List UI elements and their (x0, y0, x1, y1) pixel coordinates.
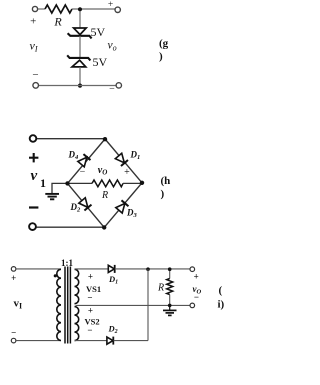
svg-text:−: − (109, 84, 115, 95)
terminal circle bottom-left (h) (29, 223, 36, 230)
primary winding (i) (57, 269, 61, 340)
svg-text:−: − (194, 292, 199, 302)
wire D2 riser vertical (i) (147, 269, 149, 340)
wire D1 to output node (i) (115, 268, 190, 270)
wire D2 to riser (i) (114, 340, 148, 342)
resistor R (g) (45, 5, 72, 13)
wire zener branch lower (g) (79, 67, 81, 86)
ground symbol (i) (163, 305, 177, 315)
node dot D2-return top (i) (146, 267, 150, 271)
svg-text:5V: 5V (91, 25, 106, 39)
svg-text:R: R (53, 15, 62, 29)
terminal circle output bottom (i) (190, 303, 195, 308)
wire secondary bottom lead (i) (75, 340, 107, 342)
svg-text:vO: vO (98, 165, 108, 177)
node dot bottom (g) (78, 84, 82, 88)
diode D3 (h) (116, 200, 129, 213)
svg-text:D1: D1 (108, 274, 118, 286)
svg-text:(: ( (219, 285, 223, 297)
zener diode Z2 5V (g) (67, 55, 90, 67)
node dot right (h) (140, 181, 144, 185)
wire diamond edge top-left (h) (68, 139, 106, 183)
wire bottom rail (g) (39, 85, 117, 87)
ground symbol (h) (45, 194, 59, 199)
wire resistor lead left (h) (68, 182, 93, 184)
node dot left (h) (65, 181, 69, 185)
wire resistor lead right (h) (123, 182, 142, 184)
svg-text:R: R (101, 190, 108, 201)
svg-text:1:1: 1:1 (61, 258, 73, 268)
svg-text:−: − (87, 325, 92, 335)
terminal circle top-left (g) (32, 6, 37, 11)
wire primary bottom lead (i) (16, 340, 61, 342)
svg-text:D2: D2 (108, 324, 118, 336)
terminal circle top-left (i) (11, 267, 16, 272)
wire zener branch upper (g) (79, 11, 81, 28)
svg-text:−: − (32, 69, 38, 81)
diode D1 (i) (108, 265, 114, 273)
wire top rail (h) (37, 138, 105, 140)
resistor R (h) (92, 180, 123, 187)
resistor R (i) (167, 279, 173, 295)
resistor R lead bottom (i) (169, 295, 171, 306)
svg-text:+: + (194, 272, 199, 282)
svg-text:(g: (g (159, 38, 169, 50)
wire bottom rail (h) (37, 226, 105, 228)
svg-text:+: + (124, 167, 130, 178)
transformer core (i) (65, 267, 70, 344)
label minus left (h) (29, 206, 38, 208)
wire secondary top lead (i) (75, 268, 109, 270)
wire between zeners (g) (79, 36, 81, 58)
node dot bottom (h) (102, 225, 106, 229)
svg-text:−: − (11, 328, 16, 338)
svg-text:): ) (161, 188, 165, 200)
svg-text:D1: D1 (130, 150, 141, 162)
svg-text:): ) (159, 51, 163, 63)
svg-text:+: + (88, 306, 93, 316)
node dot ground junction (i) (168, 304, 172, 308)
wire diamond edge top-right (h) (105, 139, 142, 183)
terminal circle bottom-right (g) (116, 83, 121, 88)
diode D2 (h) (79, 198, 92, 211)
svg-text:+: + (11, 273, 16, 283)
zener diode Z1 5V (g) (68, 28, 92, 38)
wire center tap rail (i) (76, 304, 191, 306)
svg-text:vo: vo (108, 40, 117, 53)
wire diamond edge bottom-right (h) (104, 183, 142, 228)
svg-text:vI: vI (30, 39, 38, 54)
label + left (h) (29, 153, 38, 162)
secondary winding upper VS1 (i) (75, 269, 79, 303)
terminal circle top-left (h) (30, 135, 37, 142)
svg-text:v: v (31, 168, 38, 184)
resistor R lead top (i) (169, 269, 171, 278)
svg-text:D3: D3 (126, 208, 138, 220)
terminal circle output top (i) (190, 267, 195, 272)
wire diamond edge bottom-left (h) (68, 183, 105, 227)
secondary winding lower VS2 (i) (75, 307, 79, 341)
svg-text:i): i) (218, 299, 225, 311)
svg-text:+: + (108, 0, 113, 10)
svg-text:(h: (h (161, 175, 171, 187)
terminal circle bottom-left (g) (33, 83, 39, 89)
svg-text:+: + (30, 16, 36, 28)
svg-text:R: R (157, 283, 164, 294)
svg-text:+: + (88, 272, 93, 282)
diode D1 (h) (115, 153, 128, 166)
svg-text:D4: D4 (68, 150, 80, 162)
terminal circle bottom-left (i) (11, 338, 16, 343)
polarity dot primary (i) (54, 274, 57, 277)
diode D4 (h) (78, 154, 91, 167)
diode D2 (i) (107, 337, 113, 345)
terminal circle top-right (g) (115, 7, 120, 12)
svg-text:1: 1 (40, 176, 46, 190)
wire ground stub (h) (52, 183, 68, 193)
node dot top (g) (78, 7, 82, 11)
svg-text:5V: 5V (93, 55, 108, 69)
wire top rail left (g) (38, 8, 45, 10)
wire primary top lead (i) (16, 268, 61, 270)
wire top rail right (g) (72, 8, 115, 10)
svg-text:−: − (80, 167, 86, 178)
node dot R top (i) (168, 267, 172, 271)
svg-text:vI: vI (14, 298, 23, 311)
svg-text:−: − (87, 293, 92, 303)
node dot top (h) (103, 137, 107, 141)
